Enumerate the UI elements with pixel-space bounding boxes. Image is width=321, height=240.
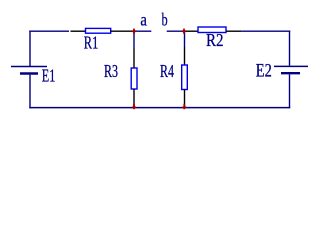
wire black segment from node b to R2 [185,30,199,32]
svg-text:R1: R1 [84,33,99,53]
wire right vertical upper segment [289,31,291,66]
svg-text:R4: R4 [160,61,174,81]
wire navy segment from node a to right [134,30,151,32]
battery E2 short plate [281,72,300,74]
resistor R1 [86,28,111,33]
battery E1 short plate [20,72,38,74]
wire bottom horizontal [29,107,290,109]
svg-text:R3: R3 [104,61,118,81]
resistor R2 [198,27,226,33]
wire R3 branch black segment below box [133,89,135,108]
svg-text:a: a [140,10,147,30]
svg-text:E1: E1 [42,66,56,86]
wire black segment right of R2 [226,30,241,32]
wire R3 branch navy upper segment [133,32,135,49]
wire R4 branch black segment above box [184,47,186,65]
svg-text:b: b [162,10,168,30]
wire R4 branch black segment below box [184,90,186,108]
wire right vertical lower segment [289,74,291,108]
wire top horizontal, black segment right of R1 [111,30,133,32]
resistor R3 [131,68,137,89]
resistor R4 [182,65,188,90]
junction bottom of R4 branch [182,104,186,109]
wire top horizontal, black segment left of R1 [71,30,86,32]
junction node a [132,29,136,34]
svg-text:R2: R2 [206,30,224,50]
wire top-left corner + left vertical upper segment [29,31,31,67]
wire R3 branch black segment above box [133,49,135,69]
svg-text:E2: E2 [256,60,272,81]
wire R4 branch navy upper segment [184,32,186,47]
junction bottom of R3 branch [132,104,136,109]
battery E2 long plate [274,65,308,67]
battery E1 long plate [11,66,47,68]
wire top horizontal, left navy segment [29,30,69,32]
wire navy segment approaching node b [167,30,184,32]
wire navy segment to top-right corner [241,30,290,32]
junction node b [182,29,186,34]
wire left vertical lower segment [29,75,31,109]
